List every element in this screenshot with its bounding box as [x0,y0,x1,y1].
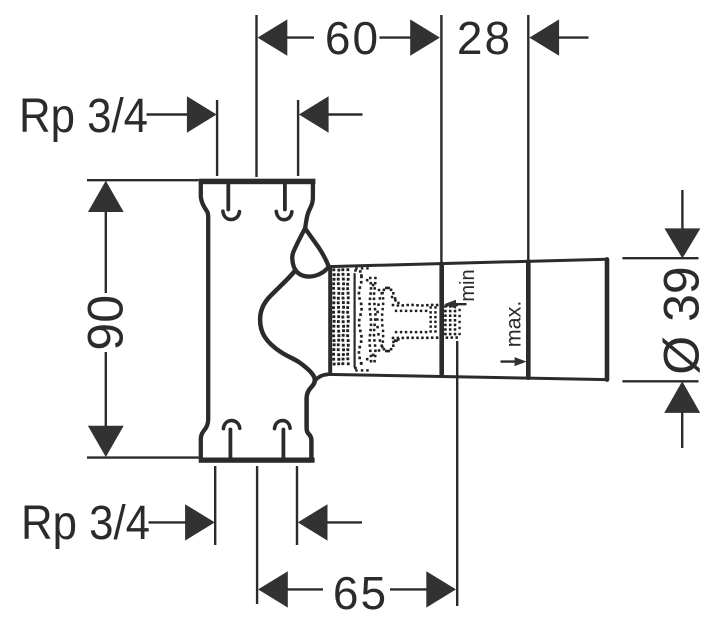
thread hook top-right arc [276,211,292,219]
leader Rp 3/4 bottom [149,521,186,523]
arrowhead 90 up [88,181,124,212]
svg-text:Ø 39: Ø 39 [654,266,710,374]
dimension tail 28 [559,36,589,38]
arrowhead Rp bottom right-pointing [185,504,215,540]
thread line top right (x=298) [297,100,299,176]
funnel diagonal kink-to-junction [305,228,329,266]
dimension tail 65 right [390,588,427,590]
svg-text:Rp 3/4: Rp 3/4 [19,90,148,143]
svg-text:60: 60 [325,12,380,64]
arrowhead 28 left-pointing [529,19,559,55]
extension line 60-left (x=256.5) [255,15,257,177]
extension line 65-left (x=257) [256,466,258,604]
beak left edge [292,228,305,258]
arrowhead 90 down [88,426,124,457]
arrowhead Rp bottom left-pointing [298,504,328,540]
svg-text:max.: max. [502,301,526,348]
flange bottom [199,458,315,463]
svg-text:min: min [457,269,479,301]
cone bottom-left tip [316,374,328,380]
svg-text:28: 28 [457,12,512,64]
min depth line [439,264,444,374]
arrowhead 60 left [258,19,288,55]
thread hook top-left stem [226,184,230,210]
max depth line [526,261,531,377]
min underline [449,303,467,305]
dimension line 90 lower [105,352,107,427]
cone bottom edge [327,374,608,379]
min mini arrow [444,300,456,309]
extension line 65-right (x=457) [456,341,458,606]
dimension tail 60 left [287,36,315,38]
thread hook bottom-right stem [281,430,285,458]
thread hook bottom-left stem [228,430,232,458]
max underline [501,360,518,362]
svg-text:90: 90 [77,295,133,351]
dimension line 90 upper [105,211,107,293]
flange top [199,179,316,185]
extension line 28-right (x=528.3) [527,15,529,260]
cone top edge [329,259,607,266]
dimension tail Rp top [328,113,363,115]
thread hook bottom-left arc [223,421,239,429]
max mini arrow [515,357,527,366]
svg-text:65: 65 [333,567,388,619]
body left edge [201,184,208,459]
body right edge upper [305,184,313,229]
arrowhead 65 left [258,571,288,607]
arrowhead 60 right [410,19,440,55]
arrowhead Rp top left-pointing [299,96,329,132]
diameter tail bottom [681,412,683,448]
arrowhead Rp top right-pointing [187,96,217,132]
tick diameter bottom [622,380,698,382]
tick diameter top [622,257,698,259]
dimension tail 65 left [287,588,323,590]
thread hook top-right stem [283,184,287,210]
stipple texture cartridge [332,267,461,372]
tick 90 top [87,179,199,181]
svg-text:Rp 3/4: Rp 3/4 [21,497,150,550]
extension line 60/28 shared (x=441.4) [440,15,442,262]
thread hook bottom-right arc [275,421,291,429]
thread line bottom left (x=215) [214,466,216,545]
dimension tail Rp bottom [327,521,362,523]
stipple band left edge [328,267,332,372]
arrowhead 65 right [426,571,456,607]
thread hook top-left arc [223,211,240,219]
leader Rp 3/4 top [147,113,188,115]
arrowhead diameter up [664,381,700,413]
arrowhead diameter down [664,228,700,258]
dimension tail 60 right [380,36,412,38]
body bell S-curve and lower right edge [260,270,315,458]
tick 90 bottom [87,456,199,458]
thread line top left (x=217) [216,100,218,176]
beak bottom arc [292,258,329,276]
diameter tail top [681,190,683,229]
cone end cap [605,259,610,379]
thin inner line after band [354,274,356,367]
thread line bottom right (x=297) [296,466,298,545]
